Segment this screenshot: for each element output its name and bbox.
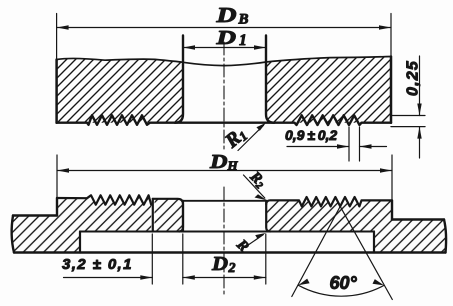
arrow D_B right (379, 25, 391, 29)
flange top right (392, 218, 444, 220)
arrow R2 (255, 194, 267, 200)
step up left (56, 198, 58, 216)
lower piece left edge (curved) (12, 216, 14, 253)
arrow D_2 left (183, 275, 195, 279)
lower piece left collar bump hatching (155, 199, 184, 232)
dimension 3,2±0,1 extension lines (151, 234, 153, 284)
dimension D_2 right extension line (265, 234, 267, 284)
right collar top corner R2 + top + thread (266, 197, 392, 206)
svg-text:D: D (209, 151, 228, 173)
arrow R (255, 233, 265, 239)
svg-text:2: 2 (228, 261, 236, 276)
60 degree arc (298, 285, 384, 296)
svg-text:1: 1 (239, 32, 247, 49)
svg-text:B: B (238, 12, 249, 28)
svg-text:H: H (227, 158, 239, 173)
svg-text:D: D (211, 253, 228, 275)
arrow D_1 left (183, 45, 195, 49)
dimension D_H extension line right (391, 155, 393, 200)
arrow D_1 right (254, 45, 266, 49)
groove edge at thread runout (152, 199, 154, 232)
svg-text:0,9 ± 0,2: 0,9 ± 0,2 (285, 127, 337, 143)
arrow D_2 right (254, 275, 266, 279)
dimension D_H line (57, 170, 392, 172)
svg-text:3,2 ± 0,1: 3,2 ± 0,1 (62, 256, 133, 273)
60 degree construction line left (292, 206, 340, 296)
centerline upper (223, 42, 225, 150)
upper piece bottom face with internal thread zigzag (left) (57, 115, 175, 125)
dimension D_B extension line left (56, 14, 58, 60)
centerline lower (223, 187, 225, 297)
dimension 0,25 extension lines (391, 115, 425, 117)
svg-text:R1: R1 (220, 123, 250, 153)
dimension 0,9±0,2 extension lines (348, 127, 350, 161)
leader R1 (238, 125, 264, 150)
hole far-side top edge (183, 200, 266, 202)
flange top left (13, 214, 57, 216)
leader R2 (244, 175, 265, 198)
recess step left (79, 232, 81, 253)
upper piece bore right wall + fillet R1 (right), extends up as D1 extension (266, 36, 274, 123)
dimension 0,9±0,2 lines with inward arrows (287, 146, 349, 148)
arrow D_B left (57, 25, 69, 29)
svg-text:D: D (215, 27, 236, 49)
left collar bump outline (153, 199, 183, 232)
arrow R1 (256, 123, 266, 131)
lower piece right body hatching (266, 197, 446, 253)
right edge (curved) (444, 220, 446, 253)
arrow D_H left (57, 168, 69, 172)
recess floor (80, 231, 374, 233)
dimension D_B line (57, 27, 391, 29)
boss top left + external thread zigzag (57, 195, 151, 204)
svg-text:0,25: 0,25 (405, 60, 422, 96)
step down right (391, 200, 393, 219)
dimension D_2 line (183, 277, 266, 279)
60 degree construction line right (340, 206, 392, 299)
upper piece right block hatching (266, 57, 391, 123)
upper piece bottom silhouette across bore gap (175, 121, 274, 123)
dimension 3,2±0,1 line with arrow (64, 277, 153, 279)
arc arrow left (298, 279, 309, 286)
svg-text:R2: R2 (245, 168, 268, 191)
dimension D_H extension line left (56, 155, 58, 198)
upper piece left block hatching (57, 58, 183, 122)
hole left wall (182, 201, 184, 232)
arc arrow right (373, 279, 385, 285)
leader R (246, 235, 263, 247)
upper piece left outer edge (55, 60, 58, 123)
svg-text:D: D (215, 3, 236, 27)
arrow D_H right (380, 168, 392, 172)
hole right wall + fillet R (266, 201, 270, 232)
upper piece bore left wall + fillet R1 (left), extends up as D1 extension (175, 36, 183, 123)
upper piece break (wavy) top line (57, 57, 391, 66)
upper piece bottom face with internal thread zigzag (right) (274, 115, 391, 125)
svg-text:60°: 60° (330, 273, 358, 293)
dimension D_B extension line right (390, 14, 392, 57)
lower piece left body hatching (12, 195, 152, 252)
dimension D_1 line (183, 47, 266, 49)
upper piece right outer edge (390, 57, 393, 123)
dimension 0,25 vertical line with arrows (419, 56, 421, 116)
bottom face full width (14, 251, 446, 253)
recess step right (373, 232, 375, 253)
